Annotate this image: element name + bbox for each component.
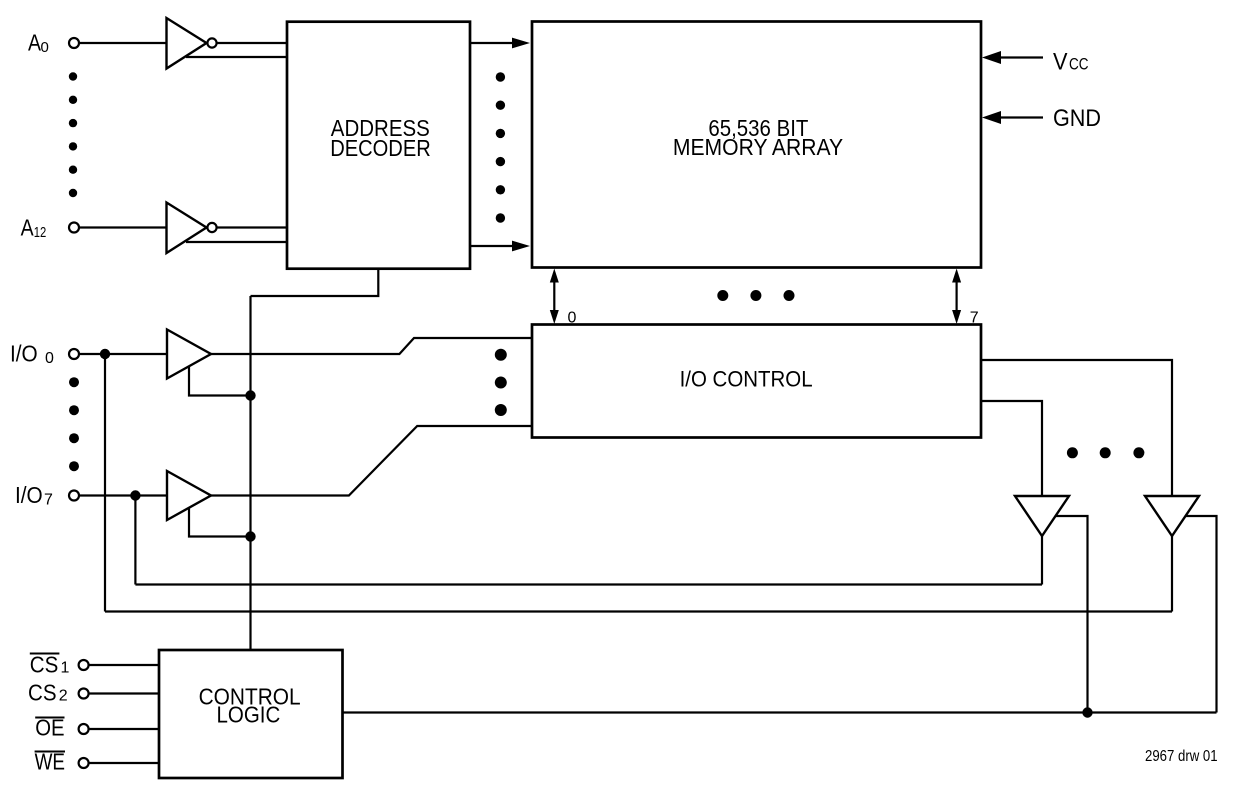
arrowhead GND into memory — [982, 111, 1001, 124]
wire control trunk vertical — [249, 296, 251, 650]
control logic box — [159, 650, 343, 778]
junction I/O0 pin node — [100, 349, 110, 359]
node OE input terminal — [79, 724, 89, 734]
svg-text:V: V — [1053, 49, 1068, 76]
wire A0 buffer complement output — [186, 56, 287, 58]
arrowhead decoder to memory row12 — [512, 241, 530, 252]
svg-text:MEMORY ARRAY: MEMORY ARRAY — [673, 134, 843, 160]
dots memory-io horizontal ellipsis — [717, 290, 728, 301]
overline WE — [35, 751, 65, 753]
arrowhead bit0 up — [550, 269, 559, 283]
svg-text:DECODER: DECODER — [330, 135, 431, 161]
node A12 input terminal — [69, 223, 79, 233]
out buffer left triangle — [1015, 496, 1069, 536]
svg-text:LOGIC: LOGIC — [217, 701, 281, 727]
svg-text:7: 7 — [44, 492, 53, 509]
svg-text:I/O: I/O — [10, 340, 38, 366]
junction I/O7 enable on trunk — [245, 531, 255, 541]
buffer A12 inverting bubble — [207, 223, 216, 232]
wire I/O7 feedback vertical — [134, 496, 136, 585]
junction I/O0 enable on trunk — [245, 390, 255, 400]
buffer A0 triangle — [167, 18, 207, 69]
wire decoder bottom elbow — [251, 269, 379, 296]
overline CS1 — [30, 653, 60, 655]
buffer I/O7 triangle — [167, 471, 211, 520]
wire memory to io bit0 double arrow — [553, 281, 555, 312]
dots io input ellipsis column — [69, 377, 79, 387]
wire control logic output — [343, 711, 1217, 713]
arrowhead Vcc into memory — [982, 51, 1001, 64]
wire A12 buffer true output — [217, 226, 287, 228]
i/o control box — [532, 325, 981, 438]
svg-text:CS: CS — [30, 651, 59, 677]
dots decoder-memory ellipsis column — [496, 72, 505, 81]
node CS2 input terminal — [79, 689, 89, 699]
wire A0 buffer true output — [217, 42, 287, 44]
node I/O0 input terminal — [69, 349, 79, 359]
svg-text:I/O: I/O — [15, 482, 43, 508]
wire I/O7 input — [79, 494, 167, 496]
dots out buffer horizontal ellipsis — [1067, 447, 1078, 458]
memory array box — [532, 22, 981, 268]
wire WE input — [89, 762, 159, 764]
junction I/O7 pin node — [130, 490, 140, 500]
wire I/O0 buffer to io control — [211, 338, 532, 354]
svg-text:7: 7 — [970, 310, 979, 327]
junction control output to left enable — [1082, 707, 1092, 717]
wire I/O7 buffer to io control — [211, 426, 532, 496]
svg-text:0: 0 — [41, 39, 49, 56]
wire Vcc — [999, 56, 1043, 58]
node A0 input terminal — [69, 38, 79, 48]
buffer I/O0 triangle — [167, 330, 211, 379]
svg-text:CC: CC — [1069, 55, 1089, 74]
wire decoder to memory row12 — [470, 245, 514, 247]
dots io bus ellipsis column — [495, 349, 507, 361]
svg-text:2: 2 — [59, 688, 68, 705]
svg-text:0: 0 — [568, 310, 577, 327]
node CS1 input terminal — [79, 660, 89, 670]
wire I/O0 buffer enable — [189, 366, 251, 395]
svg-text:12: 12 — [34, 224, 47, 241]
wire decoder to memory row0 — [470, 42, 514, 44]
wire left out buffer enable — [1055, 516, 1088, 713]
node I/O7 input terminal — [69, 491, 79, 501]
out buffer right triangle — [1145, 496, 1199, 536]
wire GND — [999, 116, 1043, 118]
svg-text:I/O CONTROL: I/O CONTROL — [680, 367, 813, 392]
wire io control lower output to left out buffer — [981, 401, 1042, 496]
wire right out buffer enable — [1185, 516, 1217, 713]
wire I/O0 input — [79, 353, 167, 355]
wire A12 buffer complement output — [186, 241, 287, 243]
svg-text:CS: CS — [28, 680, 57, 706]
overline OE — [35, 717, 64, 719]
wire A0 input — [79, 42, 166, 44]
wire io control upper output to right out buffer — [981, 360, 1172, 496]
svg-text:1: 1 — [61, 659, 70, 676]
wire I/O7 buffer enable — [189, 508, 251, 537]
buffer A12 triangle — [167, 203, 207, 254]
wire CS1 input — [89, 664, 159, 666]
node WE input terminal — [79, 758, 89, 768]
arrowhead bit0 down — [550, 310, 559, 324]
wire right out buffer output — [1171, 536, 1173, 612]
buffer A0 inverting bubble — [207, 38, 216, 47]
dots address ellipsis column — [69, 72, 77, 80]
svg-text:GND: GND — [1053, 105, 1101, 132]
arrowhead decoder to memory row0 — [512, 38, 530, 49]
svg-text:2967 drw 01: 2967 drw 01 — [1145, 748, 1218, 765]
wire I/O7 feedback horizontal — [135, 583, 1042, 585]
wire left out buffer output — [1041, 536, 1043, 585]
wire memory to io bit7 double arrow — [955, 281, 957, 312]
arrowhead bit7 down — [952, 310, 961, 324]
wire I/O0 feedback vertical — [104, 354, 106, 612]
address decoder box — [287, 22, 470, 269]
wire I/O0 feedback horizontal — [105, 610, 1172, 612]
arrowhead bit7 up — [952, 269, 961, 283]
svg-text:A: A — [21, 214, 35, 240]
svg-text:0: 0 — [45, 350, 54, 367]
wire CS2 input — [89, 692, 159, 694]
wire OE input — [89, 728, 159, 730]
wire A12 input — [79, 226, 166, 228]
